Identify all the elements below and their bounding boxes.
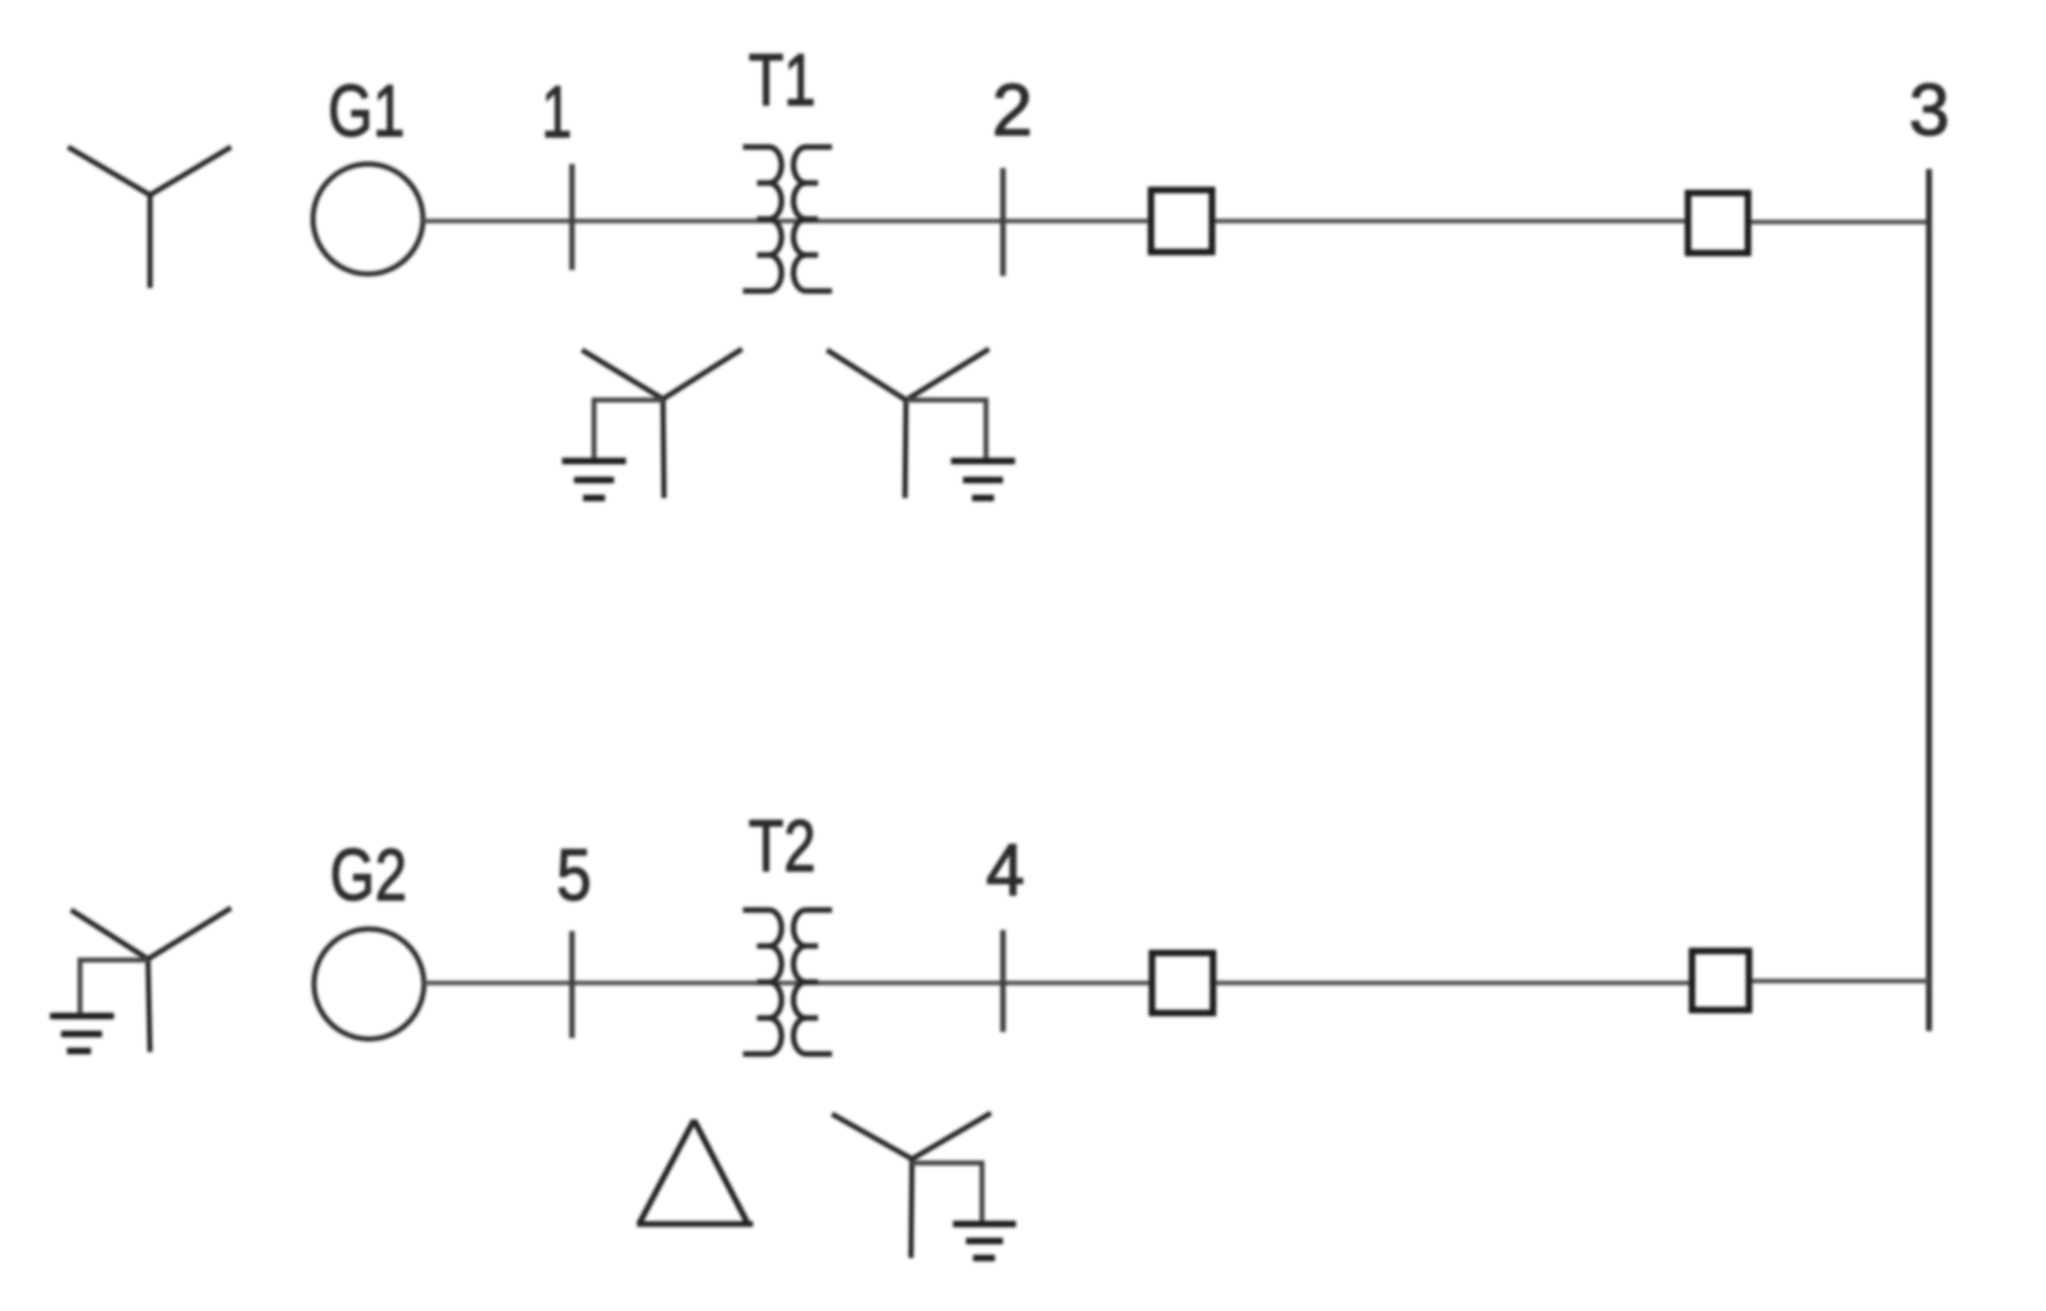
svg-text:3: 3 (1909, 70, 1950, 151)
svg-text:T2: T2 (749, 804, 816, 886)
svg-text:T1: T1 (749, 38, 816, 120)
svg-text:G1: G1 (328, 69, 405, 151)
svg-text:2: 2 (992, 70, 1033, 151)
svg-text:4: 4 (986, 830, 1025, 911)
svg-text:5: 5 (557, 835, 592, 916)
svg-text:1: 1 (542, 71, 572, 152)
svg-text:G2: G2 (330, 833, 407, 915)
